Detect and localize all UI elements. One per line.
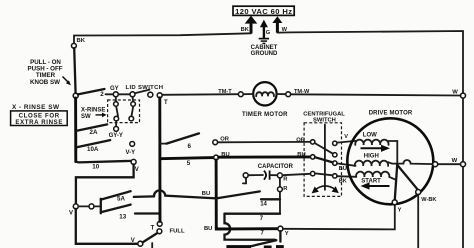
wire start to rotor link [389,177,395,180]
supply arrow W [272,16,282,32]
stub GY-Y node to x-rinse [115,121,117,127]
svg-text:HIGH: HIGH [364,153,379,159]
node wire2 b [130,92,135,97]
centrifugal blade OR [315,143,333,154]
centrifugal blade BU [315,157,333,162]
x-rinse blade right [132,106,134,116]
svg-text:KNOB SW: KNOB SW [30,79,60,86]
contact 7 lower blade [249,240,276,246]
wire W supply to right rail [277,31,463,248]
node V after contact 10 [131,159,136,164]
supply box 120 VAC 60 Hz [233,6,294,16]
wire capacitor to contact 14 fixed [279,178,281,214]
contact 6 pivot stub [160,143,167,145]
timer knob switch blade [74,48,75,93]
contact 5A fixed [134,195,154,198]
node 5 BU [214,155,219,160]
wire TM-W to right rail [291,94,461,95]
lid switch blade [135,90,150,94]
svg-text:T: T [164,100,168,106]
svg-text:5: 5 [187,160,191,167]
x-rinse stub right [132,97,134,102]
centrifugal terminal mid [333,153,337,157]
x-rinse sw dashed box [108,100,140,123]
wire BK to motor start [337,175,356,178]
svg-text:V: V [131,238,135,244]
node V-Y [130,142,135,147]
node W on right rail at motor line [461,162,466,167]
svg-text:GY-Y: GY-Y [109,133,123,139]
node wire2 a [113,92,118,97]
centrifugal terminal BK [333,174,337,178]
svg-text:G: G [266,30,271,36]
svg-text:Y: Y [285,231,289,237]
wire W-BK down [417,195,419,248]
x-rinse contact left bottom [114,116,119,121]
stub to node 2 [106,93,114,95]
svg-text:5A: 5A [117,196,125,203]
x-rinse contact right top [131,102,136,107]
wire 5A-BU with hop over T rail [154,190,216,198]
left vertical rail [74,98,77,162]
contact 10A blade [77,140,110,147]
start winding arrow [361,182,390,189]
svg-text:10A: 10A [87,146,99,153]
svg-text:LOW: LOW [363,132,377,138]
centrifugal terminal OR [311,140,315,144]
node BK top of timer knob sw [72,43,77,48]
node W-BK [416,190,421,195]
wire node a to node b [118,93,130,95]
svg-text:V: V [135,167,139,173]
svg-text:10: 10 [92,163,99,170]
label CENTRIFUGAL SWITCH [303,111,345,123]
capacitor left hook [243,178,246,184]
svg-text:LID SWITCH: LID SWITCH [126,85,164,91]
wire high to W node with hop [388,160,435,164]
centrifugal actuator shaft [324,125,326,190]
node V pair right [89,204,94,209]
BU rail vertical [215,160,218,228]
wire T line to TM-T [162,93,238,96]
T rail vertical [158,98,161,222]
low winding arrow [361,145,391,152]
pull-on arrow annotation [63,77,71,86]
contact 5 closed [160,158,214,159]
svg-text:2: 2 [100,91,104,98]
contact 2 blade of timer knob [78,89,105,94]
centrifugal terminal V [333,141,337,145]
drive motor housing circle [347,118,433,204]
contact 13 fixed to T rail [135,212,159,214]
label CABINET GROUND [251,45,278,57]
svg-text:GY: GY [110,86,119,92]
high winding coil [355,161,388,166]
svg-text:TM-T: TM-T [218,89,232,95]
svg-text:EXTRA RINSE: EXTRA RINSE [15,119,62,126]
svg-text:R: R [283,186,288,192]
svg-text:X-RINSE: X-RINSE [81,108,105,114]
svg-text:V: V [69,211,73,217]
label X-RINSE SW with arrow [81,108,107,120]
wire V to motor low [337,141,356,143]
svg-text:CAPACITOR: CAPACITOR [258,164,294,170]
svg-text:BU: BU [339,166,347,172]
wire between V pair [78,205,89,207]
node T pressure [157,222,162,227]
node V pair left [73,204,78,209]
svg-text:BU: BU [202,191,210,197]
svg-text:START: START [361,178,381,184]
centrifugal switch dashed box [304,123,341,197]
wire BU to centrifugal switch [219,155,311,158]
supply arrow BK [245,16,258,34]
wire BK from timer knob to supply [74,33,251,48]
x-rinse stub left [115,97,117,102]
svg-text:W-BK: W-BK [421,197,436,203]
node W on right rail at TM-W line [461,93,466,98]
timer motor TM [243,82,286,105]
wire motor to right rail [438,163,461,165]
contact 2A blade [77,124,107,130]
svg-text:7: 7 [260,216,264,222]
svg-text:BK: BK [339,178,347,184]
svg-text:BK: BK [77,38,86,44]
supply arrow G [260,20,268,39]
svg-text:SW: SW [81,114,91,120]
pressure switch blade [143,233,157,242]
svg-text:120 VAC 60 Hz: 120 VAC 60 Hz [235,7,292,16]
rotor link to Y [395,165,397,200]
x-rinse blade left [116,106,118,116]
node Y motor terminal [392,200,397,205]
svg-text:DRIVE MOTOR: DRIVE MOTOR [369,110,413,116]
svg-text:FULL: FULL [170,228,185,234]
svg-text:GROUND: GROUND [251,51,278,57]
node Y [278,226,283,231]
start winding coil [356,172,389,177]
svg-text:X - RINSE SW: X - RINSE SW [12,104,60,111]
node 6 OR [213,140,218,145]
svg-text:TM-W: TM-W [294,89,310,95]
contact 13 blade [101,205,131,213]
centrifugal rotation arc arrows [312,186,339,193]
wire to 5A bracket [94,205,101,207]
contact 14 blade [216,191,259,198]
centrifugal terminal BU left [311,155,315,159]
cabinet ground symbol [259,39,269,44]
svg-text:TIMER MOTOR: TIMER MOTOR [242,112,288,118]
centrifugal blade R-BK [315,173,333,175]
solenoid bar cut off [226,245,251,248]
node TM-W [286,92,291,97]
contact 14 fixed [261,198,280,200]
Y node stub down [279,231,281,241]
note box CLOSE FOR EXTRA RINSE [11,111,68,126]
svg-text:V-Y: V-Y [126,150,136,156]
node lid switch right / T [157,93,162,98]
svg-text:V: V [344,134,348,140]
node V bottom [138,241,143,246]
svg-text:T: T [151,225,155,231]
contact 5A blade [101,191,131,199]
wire R to centrifugal switch [282,174,310,175]
rotor link to W-BK [397,165,418,190]
wire OR to centrifugal switch [218,141,311,143]
node TM-T [238,92,243,97]
node lid switch left [148,92,153,97]
node motor W terminal [433,162,438,167]
node GY-Y [114,126,119,131]
svg-text:14: 14 [260,201,267,207]
svg-text:BU: BU [204,226,212,232]
svg-text:6: 6 [188,143,192,150]
low winding coil [355,140,388,145]
wire BU lower to Y node [216,228,277,230]
node FULL [157,229,162,234]
x-rinse contact left top [114,102,119,107]
centrifugal terminal R [311,171,315,175]
svg-text:2A: 2A [90,129,98,136]
svg-text:Y: Y [398,208,402,214]
wire BU to motor high [337,163,356,165]
node R lower [278,187,283,192]
label PULL-ON PUSH-OFF TIMER KNOB SW [27,59,62,86]
wire 7 loop [225,213,281,215]
wire V bottom [76,209,138,244]
stub below pressure blade [151,243,153,248]
capacitor C [243,171,282,180]
svg-text:BK: BK [241,27,250,33]
wire Y node to motor [283,205,395,230]
contact 6 blade [167,133,200,143]
wire 7 hop over BU wire [225,214,276,240]
centrifugal terminal BU right [333,161,337,165]
node timer knob bottom [73,93,78,98]
svg-text:13: 13 [119,214,126,221]
wire low to junction [389,141,398,164]
svg-text:7: 7 [261,231,265,237]
x-rinse contact right bottom [129,116,134,121]
wire V jog down-left [76,164,134,203]
svg-text:R: R [283,176,288,182]
contact 10 blade [76,161,131,163]
bracket for 5A and 13 [100,199,102,214]
